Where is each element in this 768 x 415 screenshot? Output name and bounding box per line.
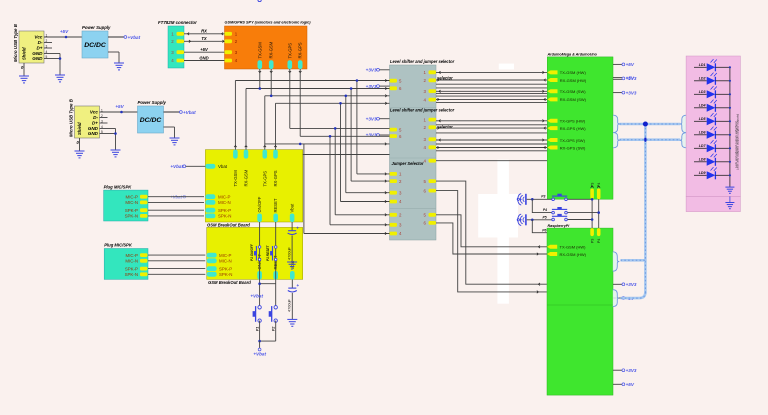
- bus junction big: [643, 122, 648, 127]
- jumper left pin 4 g2: [390, 231, 403, 236]
- bus RPi lower corner: [621, 292, 646, 298]
- pin RX-GSM (SW) green1: [547, 97, 586, 102]
- GSM BreakOut Board 2: [207, 227, 303, 285]
- ghost +Vbat label: [170, 194, 186, 199]
- wire run right y=91.3: [436, 90, 547, 93]
- FT782M connector: [158, 20, 197, 68]
- svg-text:LD2: LD2: [699, 77, 706, 81]
- svg-text:TX-GSM (HW): TX-GSM (HW): [560, 70, 587, 75]
- pin +5V green1: [613, 62, 635, 67]
- svg-text:Level shifter and jumper selec: Level shifter and jumper selector: [390, 59, 455, 64]
- wire SPY pad down x=259.8: [259, 69, 262, 90]
- pin +5V green2: [613, 296, 635, 301]
- svg-text:RX-GPS: RX-GPS: [298, 42, 303, 58]
- wires GND pins to ground: [44, 54, 61, 76]
- svg-text:P6: P6: [542, 229, 546, 233]
- pin MIC-P plug2: [126, 253, 148, 258]
- +3V3 feed: [366, 68, 390, 73]
- pin ON/OFF board2 bottom: [257, 253, 262, 279]
- svg-text:D-: D-: [38, 40, 43, 45]
- pin RX-GSM board1 top: [244, 150, 249, 187]
- wire run H 154.5: [303, 154, 390, 156]
- wire DC/DC to ground: [164, 127, 175, 138]
- svg-text:GND: GND: [199, 55, 208, 60]
- pin RX-GSM (HW) green2: [547, 252, 587, 257]
- svg-text:P3: P3: [541, 194, 545, 198]
- svg-text:+Vbat: +Vbat: [253, 352, 266, 357]
- ground shield: [75, 151, 85, 158]
- svg-text:+Vbat: +Vbat: [183, 110, 196, 115]
- pushbutton P3: [552, 198, 555, 201]
- jumper right pin 5: [424, 213, 436, 218]
- wire gray to RPi TX: [436, 215, 547, 248]
- ground C2: [287, 319, 297, 326]
- svg-text:RX-GSM: RX-GSM: [269, 41, 274, 58]
- wire jumper5 to RPi: [436, 181, 547, 285]
- svg-text:4700uF: 4700uF: [287, 246, 291, 260]
- svg-text:P5: P5: [543, 216, 547, 220]
- pin Vbat board2 bottom: [290, 260, 295, 279]
- svg-text:+Vbat: +Vbat: [170, 164, 183, 169]
- pin SPK-N plug2: [125, 272, 148, 277]
- white patch 3 (cross horizontal): [478, 194, 518, 238]
- wire run right y=99.4: [436, 98, 547, 101]
- svg-text:SPK-N: SPK-N: [219, 272, 232, 277]
- jumper left pin 2 g1: [390, 179, 403, 184]
- svg-text:RX-GPS (HW): RX-GPS (HW): [560, 126, 586, 131]
- svg-text:DC/DC: DC/DC: [140, 117, 162, 124]
- svg-text:4700uF: 4700uF: [288, 298, 292, 312]
- wire Shield to ground: [79, 138, 81, 151]
- wire SPK-N plug1-board1: [148, 215, 204, 217]
- wire run y=80.5: [235, 80, 389, 82]
- wire TX FTDI-SPY: [184, 36, 225, 42]
- svg-text:SPK-P: SPK-P: [125, 266, 138, 271]
- svg-text:Vcc: Vcc: [90, 110, 99, 115]
- svg-text:SPK-N: SPK-N: [125, 214, 138, 219]
- wires buttons to P3/P4 columns: [568, 198, 600, 228]
- white patch 2 (cross vertical): [497, 160, 509, 304]
- bus hop marker: [644, 138, 646, 142]
- svg-text:RX-GSM (HW): RX-GSM (HW): [560, 252, 587, 257]
- wire run right y=128.1: [436, 127, 547, 130]
- svg-text:GSM BreakOut Board: GSM BreakOut Board: [207, 223, 250, 228]
- wire run extra y=124.8: [436, 124, 547, 126]
- svg-text:DC/DC: DC/DC: [84, 42, 106, 49]
- svg-text:Shield: Shield: [77, 122, 82, 135]
- svg-text:LD6: LD6: [699, 131, 707, 135]
- wire SPY pad down x=289.8: [289, 69, 292, 128]
- svg-text:+3V3: +3V3: [626, 90, 637, 95]
- svg-text:TX-GSM: TX-GSM: [257, 42, 262, 59]
- pin RESET board1 bottom: [273, 198, 278, 222]
- gray s2 right pin 2: [424, 125, 436, 130]
- wires speaker2 to P5/P6: [527, 219, 552, 233]
- pushbutton P2: [274, 306, 277, 309]
- junction +Vbat row: [250, 282, 275, 298]
- wire DC/DC to ground: [108, 52, 119, 63]
- GSM BreakOut Board 1: [205, 150, 302, 228]
- svg-text:+3V3: +3V3: [366, 68, 377, 73]
- wire SPK-N plug2-board2: [148, 273, 205, 275]
- jumper right pin 6: [424, 221, 436, 226]
- svg-text:RX: RX: [201, 29, 207, 34]
- capacitor C1 4700uF board1: [287, 222, 299, 262]
- svg-text:Plug MIC/SPK: Plug MIC/SPK: [104, 243, 133, 248]
- brace leds bus1: [680, 115, 687, 133]
- svg-text:+5V: +5V: [626, 75, 635, 80]
- pin +3V3 green2: [613, 368, 637, 373]
- gray s1 right pin 2: [424, 78, 436, 83]
- svg-text:P3: P3: [591, 239, 595, 243]
- svg-text:MIC-N: MIC-N: [125, 259, 138, 264]
- svg-text:SPK-N: SPK-N: [218, 214, 231, 219]
- pin ON/OFF board1 bottom: [257, 196, 262, 222]
- wire Vcc to DC/DC with +5V node: [44, 29, 82, 38]
- wire fan x=330.0: [329, 135, 390, 226]
- svg-text:Shield: Shield: [22, 47, 27, 60]
- wire run y=95.8: [265, 95, 390, 97]
- ground DC/DC: [114, 63, 124, 70]
- wire jumper6 to RPi: [436, 191, 547, 294]
- wire RX FTDI-SPY: [184, 29, 225, 35]
- jumper left pin 4 g1: [390, 199, 403, 204]
- jumper left pin 3 g1: [390, 190, 403, 195]
- wire run extra y=132.9: [436, 132, 547, 134]
- LED LD6: [694, 127, 730, 139]
- pin RX-GPS (SW) green1: [547, 145, 586, 150]
- pin Vbat board1 bottom: [290, 203, 295, 222]
- wire fan x=340.5: [339, 102, 389, 203]
- power supply DC/DC: [82, 25, 111, 58]
- ground LED rail: [725, 187, 734, 193]
- capacitor C2 4700uF board2: [288, 280, 300, 320]
- wire Vcc to DC/DC with +5V node: [100, 104, 138, 113]
- wire run extra y=87.9: [436, 87, 547, 89]
- svg-text:Power Supply: Power Supply: [82, 25, 111, 30]
- wire run right y=80.0: [436, 79, 547, 82]
- bus vertical: [644, 124, 647, 294]
- brace leds bus2: [680, 133, 687, 148]
- LED LD8: [694, 154, 730, 166]
- stub D+: [100, 122, 108, 124]
- svg-text:P1 RESET: P1 RESET: [266, 245, 270, 261]
- wire board1 pad up x=246: [245, 89, 248, 150]
- pin MIC-P board1: [205, 194, 230, 199]
- svg-text:P4: P4: [597, 239, 601, 243]
- svg-text:+Vbat: +Vbat: [250, 294, 263, 299]
- wire SPY pad down x=271.2: [270, 69, 273, 97]
- pin +3V3 green1: [613, 90, 637, 95]
- pin MIC-N plug2: [125, 259, 147, 264]
- gray s2 right pin 3: [424, 137, 436, 142]
- svg-text:+3V3: +3V3: [366, 133, 377, 138]
- svg-text:MIC-N: MIC-N: [218, 200, 231, 205]
- svg-text:Leds and adjusted outputs soft: Leds and adjusted outputs softw/hard: [734, 121, 738, 168]
- Micro USB Type B connector: [69, 98, 104, 145]
- wire run y=88.5: [246, 88, 390, 90]
- white patch 1: [499, 64, 514, 70]
- gray s1 left pin 6: [390, 86, 403, 91]
- wire Shield to ground: [23, 63, 25, 76]
- svg-text:Jumper Selector: Jumper Selector: [392, 161, 424, 166]
- LED cathode rail: [729, 66, 731, 187]
- wire run right y=147.5: [436, 146, 547, 149]
- svg-text:RaspberryPi: RaspberryPi: [548, 224, 571, 228]
- svg-text:P2: P2: [271, 327, 275, 331]
- pin SPK-N board1: [205, 214, 231, 219]
- wire run extra y=84.2: [436, 83, 547, 85]
- svg-text:Plug MIC/SPK: Plug MIC/SPK: [104, 184, 133, 189]
- pin RX-GPS board1 top: [273, 150, 278, 187]
- wire SPY pad down x=300.2: [299, 69, 302, 136]
- svg-text:MIC-P: MIC-P: [219, 253, 232, 258]
- svg-text:P1: P1: [255, 327, 259, 331]
- wire fan x=335.2: [334, 127, 390, 216]
- svg-text:GSM BreakOut Board: GSM BreakOut Board: [208, 280, 251, 285]
- jumper left pin 3 g2: [390, 223, 403, 228]
- svg-text:MIC-P: MIC-P: [126, 253, 139, 258]
- svg-text:Level shifter and jumper selec: Level shifter and jumper selector: [390, 108, 455, 113]
- svg-text:Vbat: Vbat: [290, 203, 295, 212]
- bus to RPi upper: [621, 259, 646, 262]
- svg-text:LD5: LD5: [699, 117, 707, 121]
- svg-text:+3V3: +3V3: [366, 116, 377, 121]
- gray s2 left pin 5: [390, 127, 403, 132]
- pushbutton P1 RESET: [274, 246, 277, 249]
- gray s2 right pin 1: [424, 117, 436, 122]
- pin MIC-N plug1: [125, 200, 147, 205]
- LED LD5: [694, 113, 730, 125]
- wire ON/OFF board1 chain: [259, 222, 261, 307]
- svg-text:GND: GND: [32, 56, 43, 61]
- wire MIC-P plug2-board2: [148, 254, 205, 256]
- wire SPK-P plug2-board2: [148, 268, 205, 270]
- svg-text:LD8: LD8: [699, 158, 706, 162]
- wire run G 143.9: [265, 143, 390, 235]
- gray s1 right pin 4: [424, 97, 436, 102]
- pin P3 green1 bottom: [590, 183, 594, 200]
- stub D+: [44, 47, 52, 49]
- pin SPK-P plug2: [125, 266, 148, 271]
- wire DC/DC out +Vbat: [108, 35, 141, 40]
- svg-text:LD4: LD4: [699, 104, 706, 108]
- Micro USB Type B connector: [13, 23, 48, 70]
- wire DC/DC out +Vbat: [164, 110, 197, 115]
- jumper right pin 6: [424, 188, 436, 193]
- svg-text:selector: selector: [437, 125, 453, 130]
- gray s2 left pin 6: [390, 134, 403, 139]
- svg-text:MIC-P: MIC-P: [218, 194, 231, 199]
- svg-text:RESET: RESET: [273, 198, 278, 212]
- wire MIC-N plug1-board1: [148, 201, 204, 203]
- pin TX-GSM (SW) green1: [547, 89, 586, 94]
- pushbutton P4: [552, 211, 555, 214]
- +3V3 feed: [366, 133, 390, 138]
- wire run y=128.4: [290, 127, 390, 129]
- gray s2 right pin 4b: [424, 158, 436, 163]
- wire MIC-N plug2-board2: [148, 260, 205, 262]
- svg-text:+5V: +5V: [200, 47, 209, 52]
- bus green1 to LEDs 1: [620, 123, 681, 126]
- wire +5V FTDI-SPY: [184, 47, 225, 52]
- wire fan x=356.9: [356, 79, 390, 175]
- pin P3 green2 top: [590, 228, 594, 243]
- svg-text:+5V: +5V: [626, 382, 635, 387]
- LED LD9: [694, 167, 730, 179]
- gray s1 left pin 5: [390, 78, 403, 83]
- svg-text:LD9: LD9: [699, 171, 706, 175]
- svg-text:+3V3: +3V3: [626, 368, 637, 373]
- pushbutton P1 lower: [258, 0, 261, 2]
- speaker symbol 1: [517, 194, 526, 205]
- svg-text:RX-GSM (SW): RX-GSM (SW): [560, 97, 587, 102]
- brace green2 bus2: [613, 290, 620, 307]
- svg-text:+3V3: +3V3: [626, 282, 637, 287]
- pin TX-GSM board1 top: [233, 150, 238, 187]
- wire gray to RPi RX: [436, 223, 547, 255]
- pin P4 green1 bottom: [597, 183, 601, 200]
- gray s1 right pin 1: [424, 70, 436, 75]
- brace green2 bus1: [613, 252, 620, 271]
- pin +3V3 green2: [613, 282, 637, 287]
- svg-text:FT782M connector: FT782M connector: [158, 20, 197, 25]
- stub D-: [100, 117, 108, 119]
- LED LD7: [694, 140, 730, 152]
- svg-text:D+: D+: [92, 121, 98, 126]
- svg-text:ArduinoMega & ArduinoUno: ArduinoMega & ArduinoUno: [547, 53, 598, 57]
- LED LD1: [694, 59, 730, 71]
- ground shield: [19, 76, 29, 83]
- LED LD2: [694, 73, 730, 85]
- svg-text:Micro USB Type B: Micro USB Type B: [13, 23, 18, 62]
- wire run extra y=93.4: [436, 92, 547, 94]
- svg-text:RX-GPS (SW): RX-GPS (SW): [560, 145, 586, 150]
- svg-text:P4: P4: [543, 208, 547, 212]
- Plug MIC/SPK 1: [104, 184, 148, 221]
- wires to +Vbat bottom: [253, 321, 275, 357]
- pushbutton P5: [552, 218, 555, 221]
- svg-text:TX-GSM (HW): TX-GSM (HW): [560, 245, 587, 250]
- wire run extra y=144.0: [436, 143, 547, 145]
- svg-text:ON/OFF: ON/OFF: [257, 196, 262, 212]
- svg-text:TX-GPS: TX-GPS: [287, 43, 292, 59]
- arrows at gray edge: [385, 95, 387, 98]
- svg-text:TX-GSM (SW): TX-GSM (SW): [560, 89, 586, 94]
- brace green1 bus1: [613, 115, 620, 132]
- svg-text:TX-GPS (HW): TX-GPS (HW): [560, 119, 586, 124]
- GSM/GPRS SPY (selectors and electronic logic): [225, 21, 312, 70]
- pin SPK-N plug1: [125, 214, 148, 219]
- wire SPK-P plug1-board1: [148, 209, 204, 211]
- jumper right pin 5: [424, 179, 436, 184]
- svg-text:SPK-N: SPK-N: [125, 272, 138, 277]
- jumper left pin 1 g1: [390, 172, 403, 177]
- svg-text:SPK-P: SPK-P: [125, 208, 138, 213]
- ground C1: [287, 262, 297, 269]
- wire fan x=351.1: [350, 87, 390, 182]
- ground GND: [55, 75, 65, 82]
- ground LED panel 2: [725, 196, 734, 208]
- bus green1 to LEDs 2: [620, 138, 681, 141]
- svg-text:RX-GSM: RX-GSM: [244, 169, 249, 186]
- pin RESET board2 bottom: [273, 255, 278, 279]
- wire run y=136.3: [300, 135, 389, 137]
- svg-text:MIC-N: MIC-N: [219, 259, 232, 264]
- wires speaker1 to P3/P4: [527, 198, 552, 213]
- LED panel box: [686, 56, 740, 212]
- pin SPK-N board2: [207, 272, 233, 277]
- LED LD4: [694, 100, 730, 112]
- brace green1 bus2: [613, 133, 620, 148]
- svg-text:+5V: +5V: [60, 29, 69, 34]
- ArduinoMega and ArduinoUno box: [547, 53, 614, 200]
- pin TX-GSM (HW) green2: [547, 245, 586, 250]
- wire board1 pad up x=264.8: [264, 96, 267, 150]
- wire run right y=72.4: [436, 71, 547, 74]
- svg-text:RX-GPS: RX-GPS: [273, 170, 278, 186]
- pin SPK-P plug1: [125, 208, 148, 213]
- pin +5V green2: [613, 382, 635, 387]
- pin TX-GPS (HW) green1: [547, 119, 585, 124]
- wire fan x=345.8: [345, 95, 390, 194]
- svg-text:+Vbat: +Vbat: [128, 35, 141, 40]
- pin MIC-P plug1: [126, 194, 148, 199]
- wire GND FTDI-SPY: [184, 55, 225, 60]
- pin MIC-N board2: [207, 258, 232, 263]
- svg-text:SPK-P: SPK-P: [219, 266, 232, 271]
- wires GND pins to ground: [100, 129, 117, 151]
- +3V3 feed: [366, 116, 390, 121]
- wire run y=103.3: [276, 102, 390, 104]
- svg-text:GND: GND: [88, 131, 99, 136]
- wire run right y=140.0: [436, 139, 547, 142]
- RaspberryPi box: [547, 224, 613, 395]
- power supply DC/DC: [138, 100, 167, 133]
- svg-text:TX-GSM: TX-GSM: [233, 170, 238, 187]
- gray s2 right pin 4: [424, 145, 436, 150]
- svg-text:+: +: [296, 226, 299, 231]
- svg-text:SPK-P: SPK-P: [218, 208, 231, 213]
- svg-text:LD1: LD1: [699, 63, 706, 67]
- svg-text:MIC-N: MIC-N: [125, 200, 138, 205]
- Plug MIC/SPK 2: [104, 243, 148, 280]
- pin RX-GPS (HW) green1: [547, 126, 586, 131]
- svg-text:TX: TX: [201, 36, 207, 41]
- svg-text:GSM/GPRS SPY (selectors and el: GSM/GPRS SPY (selectors and electronic l…: [225, 21, 312, 25]
- pushbutton P1 ON/OFF: [258, 246, 261, 249]
- speaker symbol 2: [517, 214, 526, 225]
- wire board1 pad up x=275.5: [274, 103, 277, 149]
- svg-text:+: +: [296, 283, 299, 288]
- wire run 160.7: [436, 160, 547, 162]
- svg-text:Vbat: Vbat: [218, 164, 228, 169]
- jumper left pin 2 g2: [390, 213, 403, 218]
- wire RESET board1 chain: [275, 222, 277, 307]
- ground GND: [111, 150, 121, 157]
- svg-text:TX-GPS (SW): TX-GPS (SW): [560, 138, 586, 143]
- svg-text:Micro USB Type B: Micro USB Type B: [69, 98, 74, 137]
- pin RX-GSM (HW) green1: [547, 78, 587, 83]
- wire run extra y=150.8: [436, 150, 547, 152]
- gray s1 right pin 3: [424, 89, 436, 94]
- pin MIC-N board1: [205, 200, 230, 205]
- pin +3V3 double green1: [613, 75, 637, 81]
- +3V3 feed: [366, 84, 390, 89]
- ground DC/DC: [170, 138, 180, 145]
- svg-text:+5V: +5V: [115, 104, 124, 109]
- svg-text:LD3: LD3: [699, 90, 706, 94]
